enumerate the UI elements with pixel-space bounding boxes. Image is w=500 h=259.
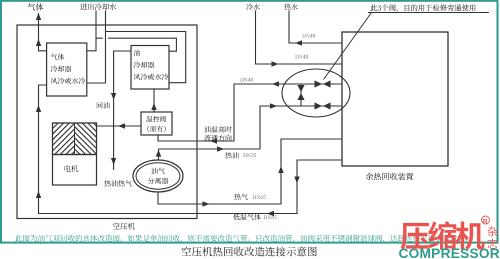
logo 压缩机 — [401, 221, 485, 250]
label DN25 — [243, 153, 256, 157]
bypass valve group ellipse — [282, 69, 350, 117]
arrow hot oil into box — [270, 103, 277, 108]
arrow oil return down2 — [111, 158, 116, 165]
label 流通方向 — [204, 135, 231, 142]
annotation leader line — [324, 13, 372, 80]
valve V2 (lower pipe) — [315, 102, 331, 109]
label DN65 hot gas — [253, 195, 266, 199]
oil-gas separator 油气分离器 — [133, 160, 183, 192]
label 余热回收装置 — [366, 173, 413, 180]
arrow hot oil right — [217, 146, 224, 151]
logo R in circle — [483, 219, 487, 224]
label 油 — [134, 50, 140, 56]
pipe: low temp gas return 低温气体 — [39, 85, 343, 214]
label 气体 outlet — [28, 3, 44, 10]
oil cooler box 油冷却器 — [131, 46, 169, 90]
label DN40 hot water — [302, 34, 315, 38]
label 空压机 — [113, 223, 135, 230]
arrow cold water right — [272, 61, 279, 66]
label 油气 — [151, 168, 165, 174]
annotation underline — [368, 12, 489, 14]
valve V3 (bypass vertical) — [297, 85, 304, 100]
label DN65 low temp — [264, 215, 277, 219]
logo 杂 — [488, 226, 498, 236]
pipe: thermo valve to oil cooler — [153, 89, 155, 112]
arrow hot water left — [295, 40, 302, 45]
pipe: oil return from cooler 回油 — [114, 51, 131, 170]
arrow gas riser up low — [36, 191, 41, 198]
pipe: cooling water branch to oil cooler upper — [96, 38, 176, 51]
label 温控阀 — [146, 116, 166, 122]
logo registered mark — [482, 216, 490, 224]
annotation 此3个阀目的用于检修旁通使用 — [370, 4, 475, 12]
arrow hot gas right — [203, 201, 210, 206]
pipe: hot oil out 热油 — [158, 149, 160, 160]
label 低温气体 — [233, 214, 261, 221]
label DN40 cold water — [295, 55, 308, 59]
pipe: cold water in 冷水 — [256, 11, 343, 65]
label （原有） — [147, 126, 165, 132]
pipe: hot water out 热水 — [289, 11, 342, 44]
pipe: oil injection into airend — [97, 125, 142, 127]
arrow oil return down1 — [111, 93, 116, 100]
arrow gas outlet top — [36, 13, 41, 20]
svg-text:COMPRESSOR: COMPRESSOR — [399, 246, 500, 259]
label 冷水 — [246, 4, 259, 11]
label 分离器 — [148, 178, 169, 185]
label 电机 — [65, 165, 79, 172]
thermostatic valve box 温控阀(原有) — [141, 112, 172, 135]
label 风冷或水冷 — [134, 74, 169, 81]
label 热油 — [225, 152, 238, 158]
arrow into oil cooler — [151, 103, 156, 110]
caption 空压机热回收改造连接示意图 — [181, 247, 316, 257]
heat recovery unit box 余热回收装置 — [342, 32, 448, 166]
label 热气 — [234, 194, 248, 200]
arrow low temp gas left — [267, 211, 274, 216]
valve V1 (upper pipe) — [315, 80, 331, 87]
pipe: cooling water branch to oil cooler lower — [106, 32, 186, 83]
label 风冷或水冷(cooler line3) — [51, 78, 86, 85]
arrow gas outlet mid — [36, 39, 41, 46]
pipe: gas outlet riser — [39, 13, 47, 51]
label 热水 — [284, 4, 298, 11]
motor box 电机 — [53, 155, 97, 186]
airend (hatched compressor element) — [53, 123, 97, 155]
label 气体(cooler line1) — [51, 54, 65, 61]
label 冷却器(cooler line2) — [51, 66, 72, 73]
air compressor enclosure 空压机 — [17, 25, 197, 219]
bypass stub pipe — [300, 84, 302, 106]
pipe: hot gas out 热气 — [158, 139, 342, 204]
arrow oil into airend — [118, 123, 125, 128]
arrow hot oil up from separator — [156, 150, 161, 157]
pipe: cooling water right to gas cooler lower — [87, 11, 106, 84]
arrow low temp gas down — [294, 177, 299, 184]
pipe: cooled oil return from heat box — [158, 84, 342, 141]
label 进出冷却水 — [80, 3, 116, 10]
arrow return oil left — [272, 81, 279, 86]
arrow gas riser up mid — [36, 105, 41, 112]
arrow hot gas up — [278, 166, 283, 173]
label 热油热气 — [104, 180, 132, 186]
gas cooler box 气体冷却器 — [47, 43, 87, 96]
label DN40 return — [240, 78, 253, 82]
arrow return oil to valve — [210, 138, 217, 143]
pipe: hot oil to heat box — [159, 106, 343, 149]
label 油温高时 — [204, 126, 232, 133]
label 回油 — [97, 102, 110, 108]
label 冷却器 — [134, 62, 155, 69]
logo 志 — [488, 239, 498, 249]
pipe: cooling water left to gas cooler — [87, 11, 96, 51]
teal note line — [15, 235, 467, 243]
